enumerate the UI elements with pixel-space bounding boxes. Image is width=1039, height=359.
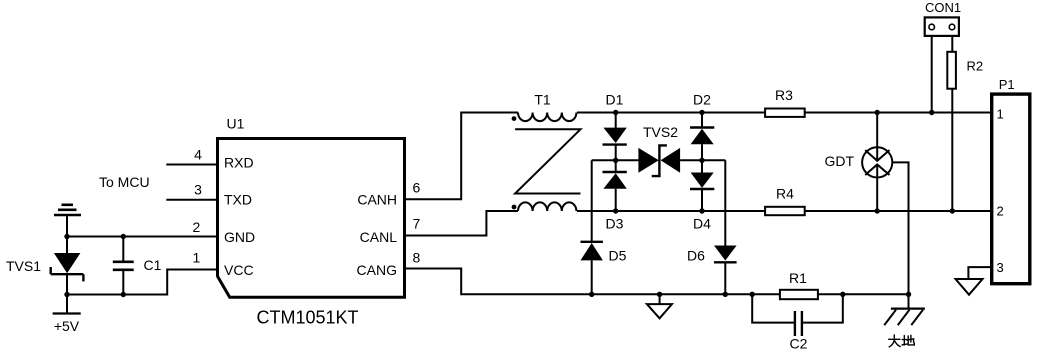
- transformer T1 core Z: [515, 129, 580, 193]
- svg-text:To MCU: To MCU: [99, 174, 150, 190]
- svg-text:P1: P1: [999, 77, 1015, 92]
- svg-text:VCC: VCC: [224, 262, 254, 278]
- svg-text:CANL: CANL: [360, 229, 398, 245]
- svg-text:2: 2: [193, 219, 201, 235]
- svg-text:U1: U1: [227, 116, 245, 132]
- wire pin3 stub: [166, 199, 216, 201]
- label 大地 (drawn as strokes): [889, 335, 915, 347]
- earth ground 大地 symbol: [884, 309, 925, 326]
- svg-text:C2: C2: [790, 336, 808, 352]
- ground open triangle mid: [647, 294, 672, 318]
- svg-text:CANG: CANG: [357, 262, 397, 278]
- svg-text:D6: D6: [687, 248, 705, 264]
- svg-text:D4: D4: [693, 216, 711, 232]
- svg-text:TXD: TXD: [224, 192, 252, 208]
- diode D2: [690, 113, 714, 161]
- svg-text:8: 8: [413, 250, 421, 266]
- TVS1 diode: [51, 237, 84, 295]
- svg-text:CTM1051KT: CTM1051KT: [257, 308, 359, 328]
- wire pin8 + bottom rail: [406, 269, 909, 295]
- svg-text:4: 4: [194, 147, 202, 163]
- resistor R1: [780, 290, 818, 299]
- wire pin4 stub: [166, 164, 216, 166]
- transformer T1 bottom winding: [512, 202, 577, 211]
- svg-text:D5: D5: [609, 248, 627, 264]
- svg-text:CON1: CON1: [925, 0, 961, 15]
- svg-text:R2: R2: [967, 59, 984, 74]
- capacitor C2 loop: [752, 294, 843, 336]
- svg-text:D1: D1: [606, 92, 624, 108]
- svg-text:1: 1: [997, 107, 1004, 122]
- svg-text:7: 7: [413, 216, 421, 232]
- TVS2 bidirectional: [638, 145, 680, 176]
- svg-text:+5V: +5V: [54, 318, 80, 334]
- wire pin7: [406, 211, 518, 236]
- svg-text:6: 6: [413, 180, 421, 196]
- diode D4: [690, 160, 714, 211]
- resistor R4: [765, 207, 805, 215]
- svg-text:1: 1: [193, 250, 201, 266]
- svg-text:GDT: GDT: [824, 153, 854, 169]
- +5V terminal: [53, 295, 81, 314]
- wire pin6: [406, 113, 518, 200]
- connector P1: [992, 94, 1030, 284]
- wire CANH line1: [577, 112, 992, 114]
- svg-text:RXD: RXD: [224, 155, 254, 171]
- wire CANL line2: [577, 210, 992, 212]
- svg-text:TVS2: TVS2: [643, 124, 678, 140]
- op-amp U1 CTM1051KT box: [218, 139, 405, 298]
- svg-text:TVS1: TVS1: [6, 258, 41, 274]
- diode D3: [603, 160, 627, 211]
- wire TVS2 row: [592, 159, 639, 161]
- svg-text:D3: D3: [606, 216, 624, 232]
- wire bottom left rail to U1 pin1 VCC: [67, 270, 216, 295]
- wire P1 pin3 to ground: [968, 267, 991, 279]
- svg-text:2: 2: [997, 204, 1004, 219]
- resistor R2: [947, 52, 956, 211]
- connector CON1: [925, 17, 959, 112]
- svg-text:T1: T1: [534, 92, 551, 108]
- diode D6: [714, 160, 737, 294]
- ground open triangle P1 pin3: [956, 279, 983, 295]
- svg-text:3: 3: [194, 181, 202, 197]
- svg-text:3: 3: [997, 260, 1004, 275]
- svg-text:GND: GND: [224, 229, 255, 245]
- capacitor C1: [113, 237, 134, 295]
- transformer T1 top winding: [512, 113, 577, 122]
- svg-text:D2: D2: [693, 92, 711, 108]
- svg-text:CANH: CANH: [357, 192, 397, 208]
- svg-text:R3: R3: [775, 87, 793, 103]
- GDT gas discharge tube: [862, 113, 908, 309]
- svg-text:C1: C1: [144, 257, 162, 273]
- ground earth symbol top-left: [54, 205, 81, 237]
- svg-text:R4: R4: [776, 185, 794, 201]
- diode D1: [603, 113, 627, 161]
- diode D5: [581, 160, 603, 294]
- wire GND rail to U1 pin2: [67, 236, 216, 238]
- svg-text:R1: R1: [789, 270, 807, 286]
- resistor R3: [765, 109, 805, 117]
